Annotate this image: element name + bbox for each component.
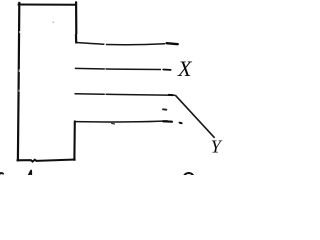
block outline: lower right edge <box>73 122 76 160</box>
wire 2 end dash <box>163 69 170 71</box>
wire 1 end dash <box>167 43 178 44</box>
wire 3 thicker spot before bend <box>169 94 173 96</box>
stray speck <box>52 21 54 23</box>
wire 4 (bottom lead) <box>75 121 167 122</box>
block outline: upper right edge <box>75 3 78 43</box>
block outline: bottom edge <box>18 160 75 162</box>
stray dash between wire 3 and wire 4 <box>163 108 166 110</box>
scan crease nicks on wire 2 and wire 3 <box>105 68 106 70</box>
cropped caption glyph: top of digit 4 <box>29 171 32 176</box>
wire 3 diagonal to Y <box>175 95 214 138</box>
block outline: left edge <box>18 3 19 160</box>
wire 2 (lead to X) <box>75 68 161 69</box>
left edge scan nicks <box>19 31 20 33</box>
wire 4 end dash <box>163 120 172 123</box>
wire 4 small tick below <box>112 122 115 125</box>
cropped caption glyph: small mark at bottom-left edge <box>0 173 3 174</box>
wire 1 (top lead) <box>76 43 165 45</box>
wire 3 (lead to Y, horizontal part) <box>75 94 176 96</box>
block outline: top edge <box>19 4 76 6</box>
stray dot right of wire 4 end <box>180 122 182 125</box>
svg-text:X: X <box>177 56 193 81</box>
cropped caption glyph: round letter bottom-centre-right <box>183 173 194 184</box>
